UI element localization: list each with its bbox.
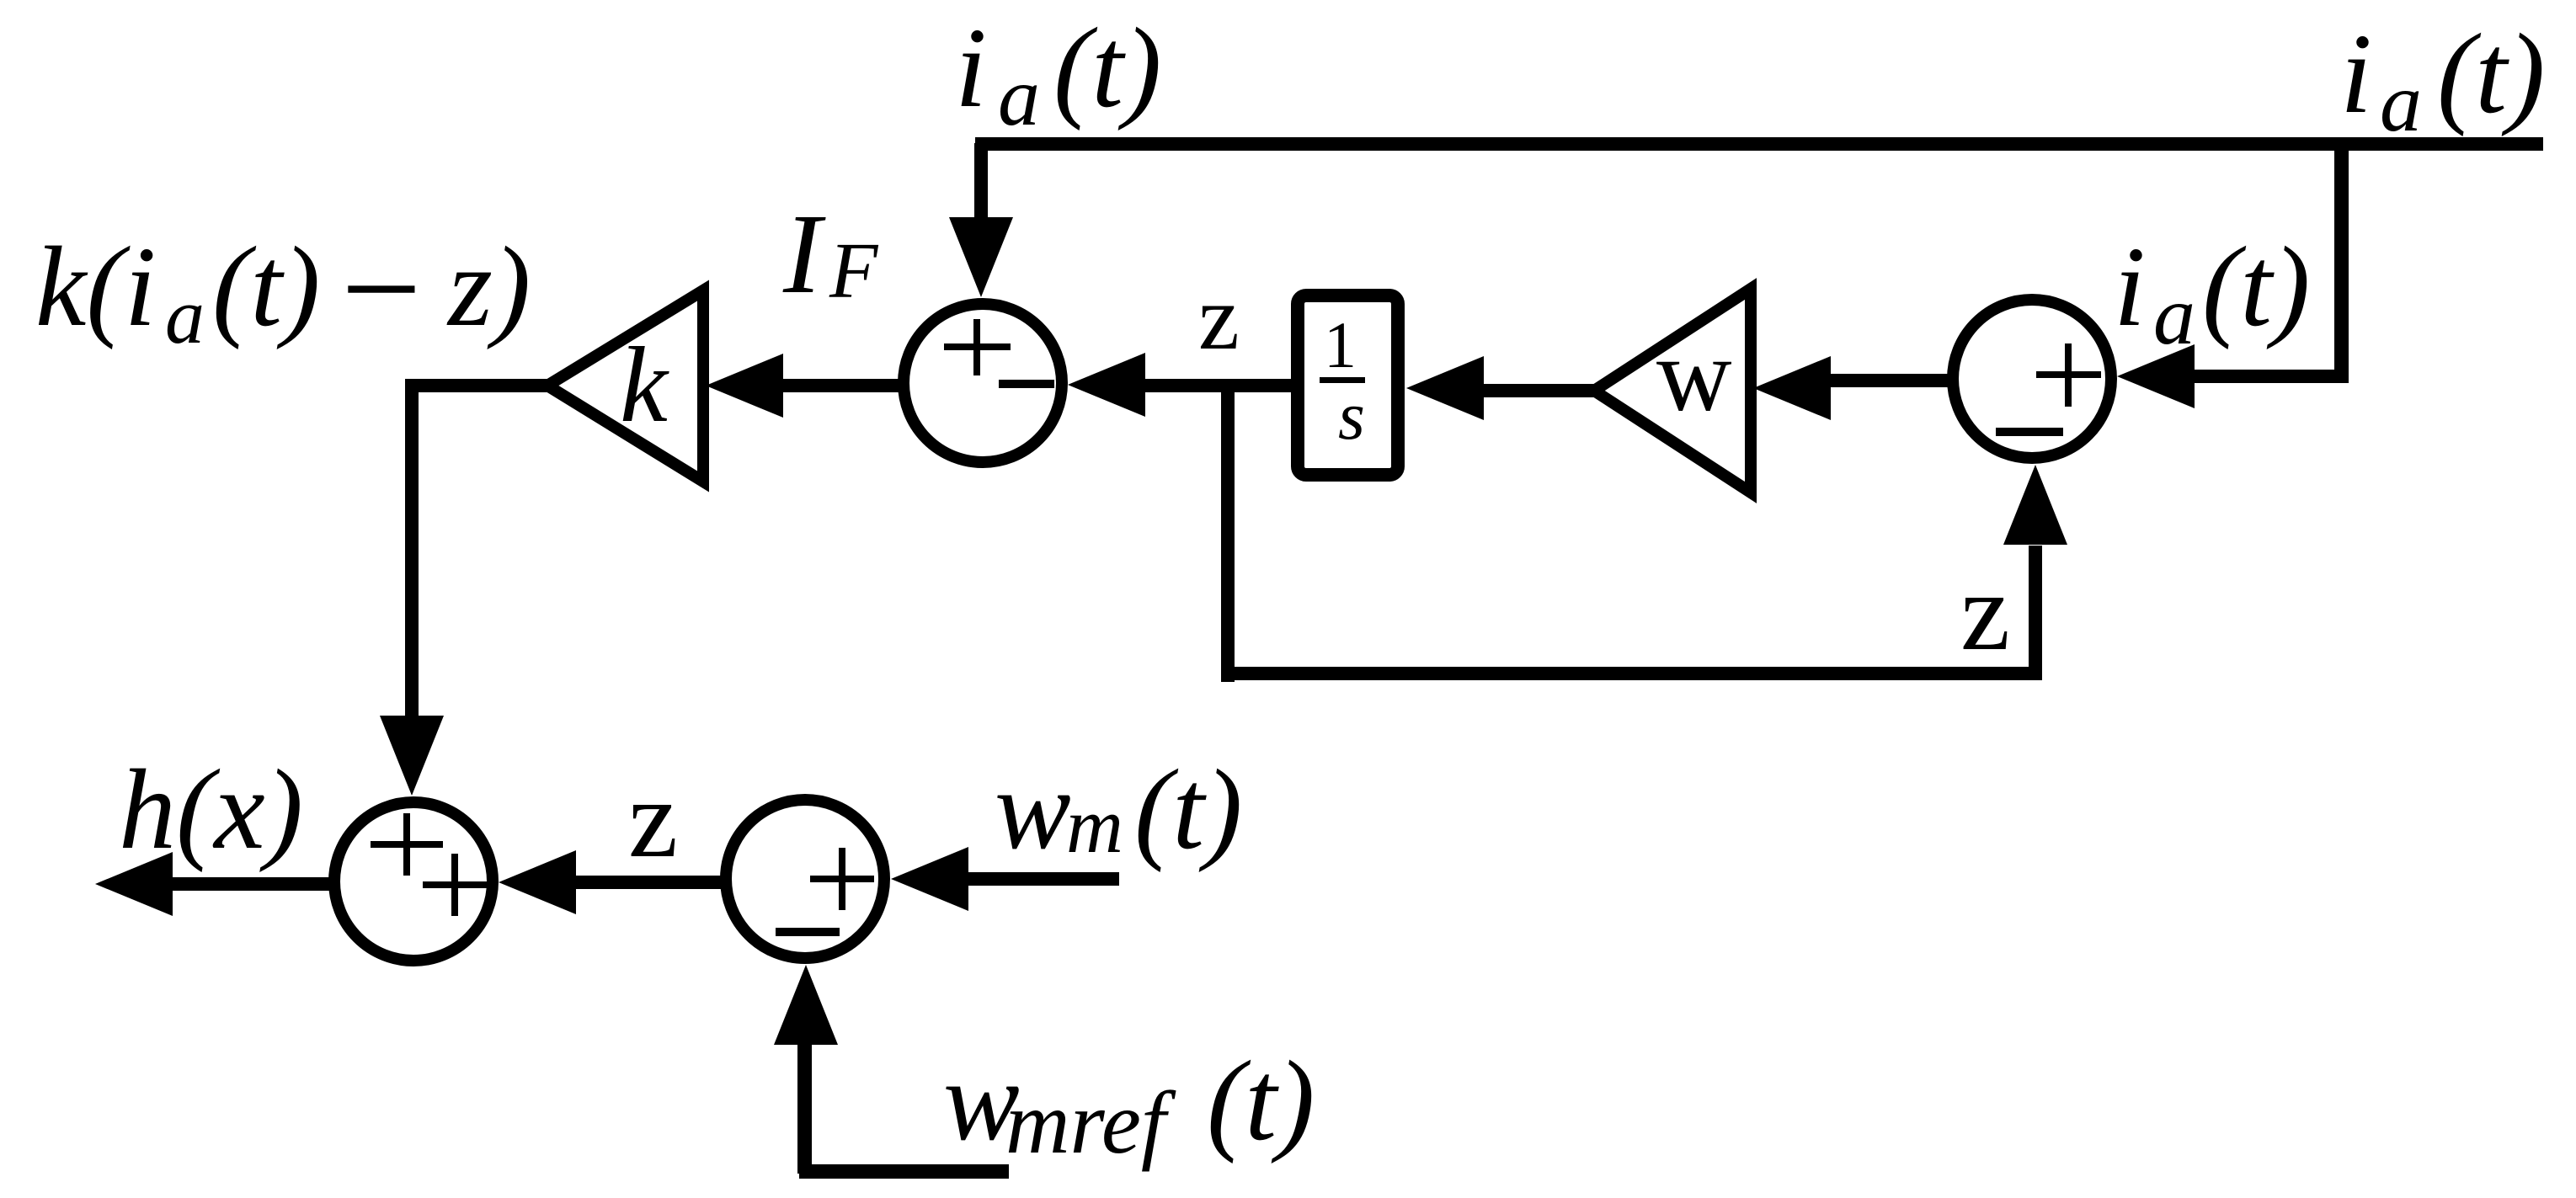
- arrowhead output left h(x): [95, 852, 173, 916]
- svg-text:z: z: [628, 756, 678, 881]
- plus sign in summer S4: [810, 848, 874, 910]
- node IF label: [782, 191, 879, 317]
- wire top ia(t) horizontal: [975, 137, 2543, 151]
- svg-text:−: −: [332, 210, 429, 368]
- gain W triangle: [1594, 289, 1751, 493]
- svg-text:z: z: [1960, 549, 2010, 674]
- arrowhead left into summer S4: [891, 847, 968, 911]
- node wm(t) label: [995, 747, 1242, 873]
- svg-text:i: i: [955, 5, 987, 131]
- svg-text:i: i: [2340, 11, 2372, 137]
- wire z feedback: vertical drop below summer S1: [1221, 384, 1235, 682]
- plus sign right in summer S3: [423, 854, 487, 916]
- svg-text:1: 1: [1324, 308, 1357, 381]
- arrowhead left into summer S2: [2117, 344, 2195, 408]
- arrowhead left into summer S1: [1068, 353, 1145, 417]
- svg-text:k: k: [620, 325, 669, 445]
- svg-text:m: m: [1066, 782, 1123, 870]
- output wire from summer S3: [171, 877, 333, 891]
- arrowhead left into gain k: [706, 354, 783, 418]
- wire from gain W to integrator: [1480, 384, 1598, 397]
- plus sign in summer S2: [2036, 343, 2101, 407]
- minus sign in summer S2: [1996, 428, 2063, 436]
- arrowhead down into summer S3: [380, 716, 444, 796]
- node ia(t) top-right label: [2340, 11, 2545, 149]
- wire z feedback horizontal: [1221, 667, 2042, 680]
- svg-text:k(i: k(i: [35, 224, 156, 350]
- wire wm(t) input: [967, 872, 1119, 886]
- svg-text:i: i: [2114, 224, 2146, 350]
- summer S1 (middle) circle: [904, 304, 1062, 462]
- minus sign in summer S4: [776, 928, 840, 936]
- svg-text:a: a: [2153, 269, 2195, 362]
- svg-text:I: I: [782, 191, 826, 317]
- svg-text:mref: mref: [1005, 1073, 1176, 1172]
- summer S2 (right) circle: [1953, 300, 2111, 458]
- node ia(t) top label: [955, 5, 1161, 143]
- svg-text:(t): (t): [2202, 224, 2310, 350]
- wire wmref vertical into summer S4 bottom: [797, 1044, 812, 1174]
- wire from integrator to summer S1, node z: [1141, 379, 1298, 392]
- wire from summer S4 to summer S3, node z: [574, 876, 723, 889]
- wire from summer S1 to gain k: [781, 379, 899, 392]
- arrowhead left into summer S3: [499, 850, 576, 914]
- svg-text:a: a: [2380, 56, 2422, 149]
- svg-text:z: z: [1198, 266, 1240, 369]
- svg-text:(t): (t): [2437, 11, 2545, 137]
- wire from gain k tip to corner: [405, 379, 552, 392]
- minus sign in summer S1: [999, 380, 1054, 388]
- plus sign in summer S1: [944, 319, 1011, 375]
- node wmref(t) label: [943, 1038, 1315, 1172]
- arrowhead left into integrator: [1406, 356, 1484, 420]
- svg-text:a: a: [998, 50, 1040, 143]
- node ia(t) label at summer S2: [2114, 224, 2310, 362]
- wire vertical down to summer S3: [405, 379, 419, 716]
- wire from summer S2 output to gain W: [1827, 374, 1954, 387]
- svg-text:(t): (t): [212, 224, 320, 350]
- node k(ia(t)-z) label: [35, 210, 531, 368]
- svg-text:s: s: [1338, 377, 1365, 454]
- svg-text:F: F: [829, 227, 879, 315]
- wire z feedback vertical up into summer S2: [2029, 546, 2042, 675]
- gain k triangle: [547, 290, 703, 482]
- wire vertical branch at right from top line: [2334, 143, 2349, 382]
- integrator label 1/s: [1320, 308, 1365, 454]
- wire wmref horizontal stub: [799, 1164, 1009, 1179]
- arrowhead left into gain W: [1753, 356, 1831, 420]
- svg-text:a: a: [165, 273, 205, 360]
- arrowhead up into summer S2 bottom: [2003, 465, 2067, 545]
- svg-text:z): z): [446, 224, 531, 350]
- arrowhead up into summer S4 bottom: [774, 965, 838, 1045]
- svg-text:(t): (t): [1134, 747, 1242, 873]
- integrator 1/s block: [1298, 296, 1398, 475]
- svg-text:(t): (t): [1053, 5, 1161, 131]
- summer S4 (bottom-right) circle: [726, 800, 884, 958]
- arrowhead down into summer S1: [949, 217, 1013, 297]
- summer S3 (bottom-left) circle: [334, 802, 493, 961]
- svg-text:w: w: [1656, 317, 1732, 433]
- plus sign upper in summer S3: [371, 813, 443, 876]
- svg-text:w: w: [995, 747, 1071, 873]
- svg-text:(t): (t): [1207, 1038, 1315, 1164]
- svg-text:h(x): h(x): [119, 747, 303, 873]
- wire horizontal into summer S2 plus input: [2189, 370, 2349, 383]
- wire vertical drop from top line to summer S1: [974, 143, 988, 221]
